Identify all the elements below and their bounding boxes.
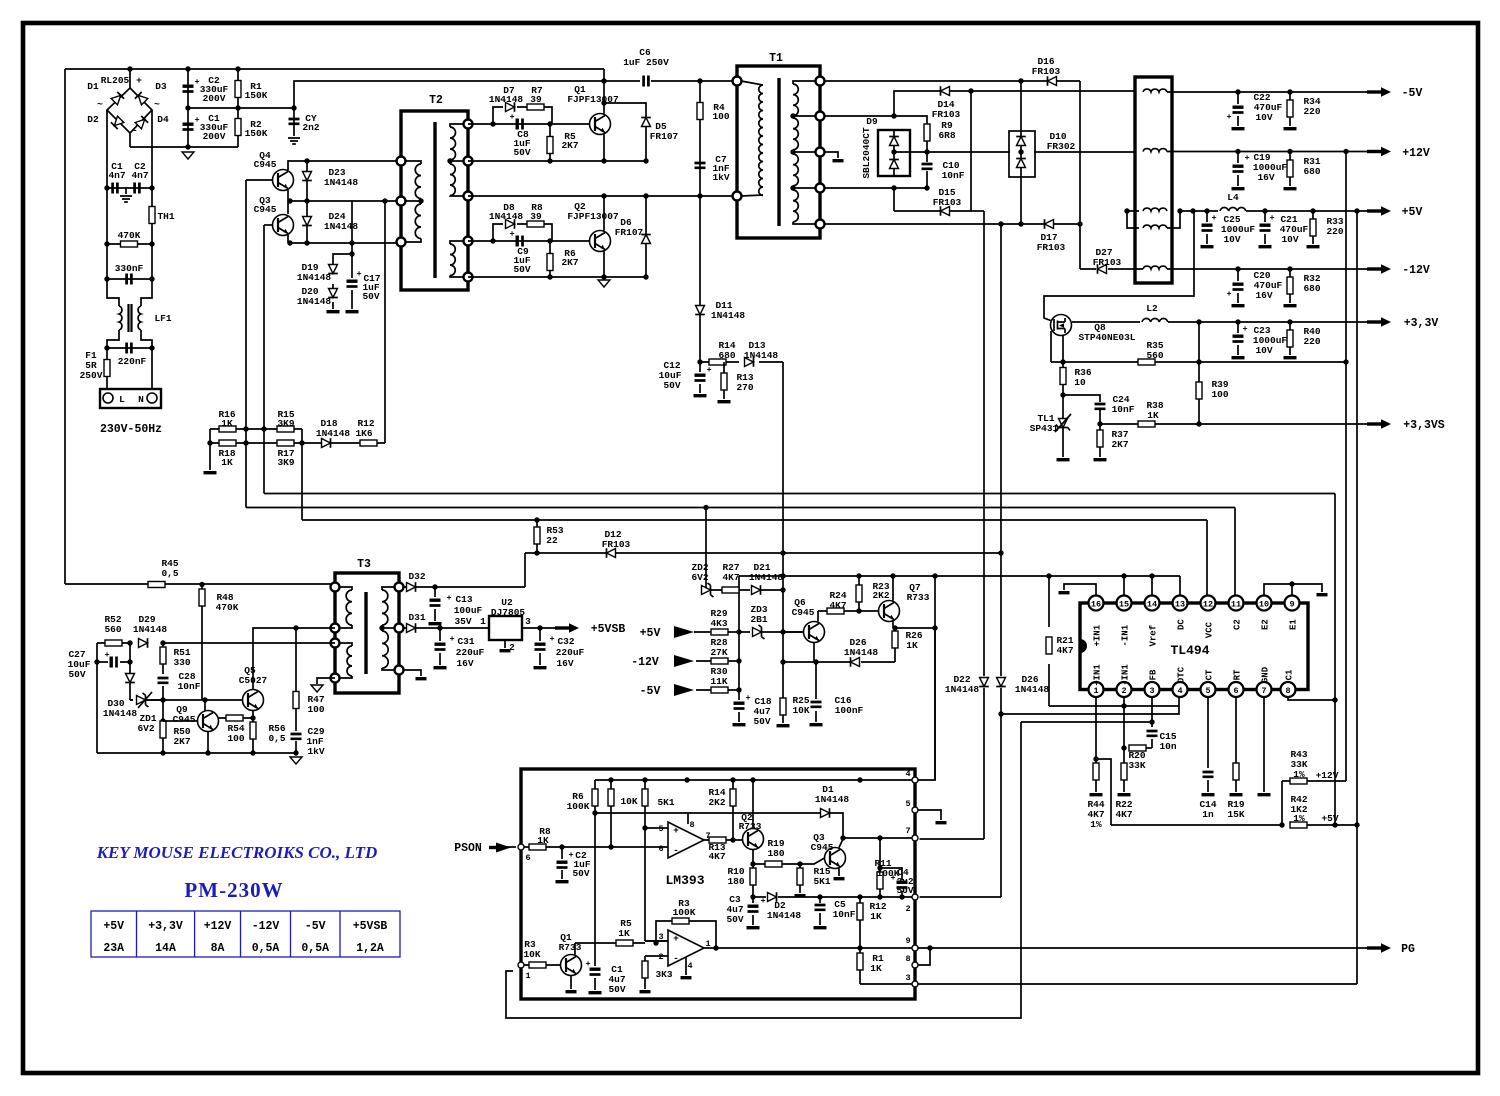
- wire pin7 row: [843, 837, 912, 839]
- capacitor C5 10nF: [815, 905, 826, 910]
- capacitor C22 470uF: [1233, 106, 1244, 109]
- winding T1 sec1: [793, 84, 798, 116]
- bus1 drop to pin8: [1288, 494, 1335, 826]
- wire pin2 row: [753, 896, 912, 898]
- capacitor C25 1000uF: [1202, 224, 1213, 227]
- wire R16 row: [210, 428, 302, 430]
- ground C21: [1259, 245, 1272, 248]
- diode D12: [607, 548, 616, 558]
- svg-text:1N4148: 1N4148: [316, 428, 351, 439]
- wire +12V feed down: [1345, 152, 1347, 782]
- winding T1 primary: [759, 85, 763, 196]
- svg-text:12: 12: [1203, 600, 1213, 610]
- diode D7: [506, 102, 515, 112]
- resistor R7: [527, 104, 544, 110]
- pin T2 right5: [464, 273, 473, 282]
- svg-text:2: 2: [1121, 686, 1126, 696]
- svg-text:6V2: 6V2: [137, 723, 154, 734]
- resistor R51: [160, 647, 166, 664]
- resistor R15 5K1: [797, 868, 803, 885]
- node -5V split: [968, 88, 973, 93]
- resistor R52: [105, 640, 122, 646]
- wire Q2 node row: [468, 240, 590, 242]
- wire FB line y706: [1049, 705, 1179, 707]
- capacitor C2 1uF: [557, 861, 568, 864]
- svg-text:680: 680: [1303, 283, 1320, 294]
- wire Q4 base: [246, 179, 273, 181]
- node D12 to D26 col: [998, 550, 1003, 555]
- svg-text:1N4148: 1N4148: [815, 794, 850, 805]
- svg-text:PG: PG: [1401, 943, 1415, 956]
- node C4 bottom: [899, 894, 904, 899]
- transformer T3 frame: [335, 573, 399, 693]
- capacitor C6 1uF 250V: [644, 76, 649, 87]
- winding T1 sec4: [793, 190, 798, 222]
- svg-text:1K: 1K: [906, 640, 918, 651]
- capacitor 330nF: [127, 274, 132, 285]
- svg-text:100nF: 100nF: [835, 705, 864, 716]
- wire pin7 column: [1263, 697, 1265, 793]
- wire R48 column: [201, 585, 203, 701]
- TL1 adjust arrow: [1055, 414, 1071, 432]
- svg-text:16V: 16V: [456, 658, 473, 669]
- wire R52 row: [97, 642, 130, 644]
- diode D10 bottom: [1016, 159, 1026, 168]
- svg-text:-12V: -12V: [631, 656, 659, 669]
- core LF1: [129, 304, 132, 332]
- svg-text:1N4148: 1N4148: [749, 572, 784, 583]
- pin TL494 10: [1257, 596, 1272, 611]
- pin LM393 1: [518, 962, 524, 968]
- pin TL494 9: [1285, 596, 1300, 611]
- capacitor C8 1uF: [516, 119, 519, 130]
- svg-text:33K: 33K: [1128, 760, 1145, 771]
- resistor R26: [892, 631, 898, 648]
- svg-text:9: 9: [905, 936, 910, 946]
- node top bus junctions: [127, 66, 132, 71]
- resistor R6 2K7: [547, 254, 553, 271]
- node ZD1 R51: [160, 697, 165, 702]
- wire x984 top: [971, 210, 984, 212]
- resistor R2: [235, 119, 241, 136]
- capacitor C10 10nF: [922, 164, 933, 169]
- svg-text:1K: 1K: [870, 963, 882, 974]
- svg-text:9: 9: [1289, 600, 1294, 610]
- svg-text:C945: C945: [173, 714, 196, 725]
- svg-text:270: 270: [736, 382, 753, 393]
- node C31 top: [437, 625, 442, 630]
- svg-text:100uF: 100uF: [454, 605, 483, 616]
- svg-text:+: +: [1244, 153, 1249, 163]
- svg-text:27K: 27K: [710, 647, 727, 658]
- svg-text:10V: 10V: [1255, 345, 1272, 356]
- svg-text:50V: 50V: [753, 716, 770, 727]
- wire pin1 line y80: [824, 80, 1080, 82]
- ground R34: [1284, 127, 1297, 130]
- ground C22: [1232, 127, 1245, 130]
- capacitor C24 10nF: [1095, 404, 1106, 409]
- svg-text:3: 3: [1149, 686, 1154, 696]
- wire pin1 row: [524, 964, 561, 966]
- svg-text:+: +: [1269, 213, 1274, 223]
- svg-text:C2: C2: [1233, 619, 1243, 630]
- svg-text:220uF: 220uF: [456, 647, 485, 658]
- node R42 right: [1354, 822, 1359, 827]
- svg-text:200V: 200V: [203, 131, 226, 142]
- wire Q2 emitter: [603, 252, 605, 278]
- wire D11 column: [699, 196, 701, 362]
- pin TL494 1: [1089, 682, 1104, 697]
- winding T2 right lower: [450, 244, 455, 276]
- pin L: [103, 393, 113, 403]
- resistor R14 680: [709, 359, 726, 365]
- svg-text:E2: E2: [1261, 619, 1271, 630]
- wire R16R18 left leg: [209, 429, 211, 470]
- wire Q2 collector: [752, 780, 754, 829]
- svg-text:1N4148: 1N4148: [297, 272, 332, 283]
- pin T2 left1: [397, 157, 406, 166]
- wire R6 leads: [549, 241, 551, 277]
- svg-text:50V: 50V: [572, 868, 589, 879]
- svg-text:1N4148: 1N4148: [297, 296, 332, 307]
- wire R3-100K loop: [656, 921, 716, 948]
- wire R34 column: [1289, 92, 1291, 126]
- wire C24 branch: [1063, 395, 1100, 424]
- wire T3 left stubs: [339, 587, 352, 678]
- svg-text:~: ~: [97, 99, 103, 110]
- svg-text:+12V: +12V: [1316, 770, 1339, 781]
- capacitor C1 4u7: [590, 968, 601, 971]
- wire F1 column: [106, 348, 108, 389]
- resistor 3K3: [642, 961, 648, 978]
- node C27 left: [94, 659, 99, 664]
- diode D27: [1098, 264, 1107, 274]
- wire Q6 emitter: [813, 643, 815, 663]
- svg-text:230V-50Hz: 230V-50Hz: [100, 423, 162, 436]
- wire D19 branch: [333, 254, 352, 309]
- svg-text:+: +: [1211, 213, 1216, 223]
- svg-text:+: +: [1226, 289, 1231, 299]
- svg-text:FR103: FR103: [1037, 242, 1066, 253]
- pin LM393 5: [912, 807, 918, 813]
- node bus2 ZD2 tap: [703, 505, 708, 510]
- svg-text:10K: 10K: [620, 796, 637, 807]
- svg-text:T3: T3: [357, 558, 371, 571]
- resistor R4: [697, 103, 703, 120]
- regulator U2 DJ7805 box: [489, 616, 522, 640]
- node base row: [293, 625, 298, 630]
- svg-text:10V: 10V: [1281, 234, 1298, 245]
- svg-text:C32: C32: [557, 636, 574, 647]
- wire op2 out row: [704, 947, 915, 949]
- svg-text:+: +: [136, 75, 142, 86]
- resistor R36: [1060, 368, 1066, 385]
- svg-text:FR103: FR103: [932, 109, 961, 120]
- ground C17: [346, 310, 359, 313]
- wire D32 row: [403, 586, 525, 588]
- svg-text:-5V: -5V: [305, 920, 326, 933]
- wire Q3 emitter row: [288, 235, 402, 243]
- pin T1 right5: [816, 220, 825, 229]
- ground pin10 tie: [1317, 593, 1328, 596]
- svg-text:DTC: DTC: [1177, 666, 1187, 683]
- zener ZD2: [702, 583, 714, 597]
- svg-text:50V: 50V: [726, 914, 743, 925]
- diode D9 top: [889, 137, 899, 146]
- resistor R45: [148, 582, 165, 588]
- wire x783 column: [782, 362, 784, 723]
- winding T1 sec2: [793, 118, 798, 150]
- wire R45 row: [65, 583, 335, 585]
- wire pin5 line y224: [824, 223, 1080, 225]
- wire Q1 bottom rail: [468, 160, 646, 162]
- svg-text:680: 680: [1303, 166, 1320, 177]
- wire Q2 collector: [603, 196, 605, 231]
- wire R47 column: [295, 628, 297, 753]
- wire ZD1 to node: [146, 699, 163, 701]
- svg-text:39: 39: [530, 211, 542, 222]
- winding T3 right lower: [382, 631, 388, 668]
- wire Vref line y576: [739, 575, 1180, 577]
- capacitor C1 4n7: [113, 183, 118, 194]
- svg-text:C945: C945: [254, 204, 277, 215]
- wire 10K column: [610, 780, 612, 847]
- rectifier D10 FR302 box: [1009, 131, 1035, 177]
- ground C1: [589, 991, 602, 994]
- svg-text:D9: D9: [866, 116, 878, 127]
- transistor Q1 R733: [561, 955, 582, 976]
- wire R35 row: [1051, 361, 1346, 363]
- transistor Q3 C945: [273, 215, 294, 236]
- node y576: [856, 573, 861, 578]
- capacitor C13 100uF: [430, 599, 441, 602]
- wire Q5 emitter: [252, 711, 254, 719]
- svg-text:220uF: 220uF: [556, 647, 585, 658]
- capacitor C2 330uF: [183, 85, 194, 88]
- pin LM393 3: [912, 981, 918, 987]
- ground C2: [556, 880, 569, 883]
- svg-text:FR103: FR103: [933, 197, 962, 208]
- wire -12V rail: [1167, 268, 1378, 270]
- resistor 470K: [121, 241, 138, 247]
- capacitor C29 1nF: [291, 734, 302, 739]
- node 4n7 row: [104, 185, 109, 190]
- wire D16 corner down: [1079, 81, 1081, 269]
- ground T1 CT: [833, 159, 844, 162]
- resistor R56: [250, 722, 256, 739]
- svg-text:0,5A: 0,5A: [301, 942, 329, 955]
- capacitor 220nF: [127, 343, 132, 354]
- capacitor C12 10uF: [695, 374, 706, 377]
- resistor R13 4K7: [709, 837, 726, 843]
- svg-text:2K2: 2K2: [708, 797, 725, 808]
- ground C20: [1232, 304, 1245, 307]
- svg-text:D31: D31: [408, 612, 425, 623]
- wire mains-to-C6 line: [294, 81, 640, 108]
- wire left HV vertical: [64, 69, 66, 584]
- wire R36 column: [1062, 362, 1064, 395]
- resistor R53: [534, 527, 540, 544]
- svg-text:180: 180: [727, 876, 744, 887]
- svg-text:1: 1: [1093, 686, 1098, 696]
- winding T3 right upper: [382, 590, 388, 625]
- wire op2 gnd stub: [685, 957, 687, 975]
- pin T1 left1: [733, 77, 742, 86]
- node C5 top: [817, 894, 822, 899]
- diode D11: [695, 306, 705, 315]
- pin TL494 5: [1201, 682, 1216, 697]
- svg-text:50V: 50V: [896, 885, 913, 896]
- node D10 center: [1018, 149, 1023, 154]
- wire Q9 base: [163, 720, 198, 722]
- svg-text:+12V: +12V: [1402, 147, 1430, 160]
- diode D17: [1045, 219, 1054, 229]
- svg-text:1K: 1K: [537, 835, 549, 846]
- capacitor C23 1000uF: [1233, 335, 1244, 338]
- wire D14 riser: [894, 91, 940, 116]
- svg-text:0,5A: 0,5A: [252, 942, 280, 955]
- node R56 bottom: [250, 750, 255, 755]
- svg-text:FR103: FR103: [1032, 66, 1061, 77]
- wire pin16 gnd: [1064, 584, 1096, 596]
- svg-text:2n2: 2n2: [302, 122, 319, 133]
- wire R23 column: [858, 576, 860, 611]
- input arrow PSON: [496, 843, 511, 853]
- wire +3.3V rail: [1072, 321, 1378, 323]
- svg-text:+5VSB: +5VSB: [353, 920, 388, 933]
- resistor R28: [711, 658, 728, 664]
- node HV minus row: [185, 144, 190, 149]
- diode D32: [407, 582, 416, 592]
- wire +5V feed down: [1356, 211, 1358, 825]
- ground C18: [733, 723, 746, 726]
- wire D32 riser x525: [524, 553, 526, 587]
- node Q1 collector: [601, 78, 606, 83]
- node R11: [877, 835, 882, 840]
- svg-text:100: 100: [307, 704, 324, 715]
- svg-text:200V: 200V: [203, 93, 226, 104]
- resistor R23: [856, 585, 862, 602]
- svg-text:+: +: [509, 112, 514, 122]
- pin T1 right3: [816, 148, 825, 157]
- wire R40 column: [1289, 322, 1291, 355]
- svg-text:8: 8: [689, 820, 694, 830]
- capacitor C27 10uF: [110, 657, 113, 668]
- svg-text:-: -: [673, 953, 679, 964]
- svg-text:D1: D1: [87, 81, 99, 92]
- node 330nF row: [104, 276, 109, 281]
- node C13 top: [432, 584, 437, 589]
- svg-text:470K: 470K: [216, 602, 239, 613]
- wire C13 column: [434, 587, 436, 621]
- resistor R40: [1287, 330, 1293, 347]
- node pin2 nodes: [1121, 703, 1126, 708]
- bracket L1 +5V left: [1127, 211, 1139, 228]
- wire D22 column: [920, 211, 985, 839]
- ground 3K3: [640, 990, 651, 993]
- node R36 bottom: [1060, 392, 1065, 397]
- svg-text:1kV: 1kV: [712, 172, 729, 183]
- svg-text:PM-230W: PM-230W: [184, 878, 283, 902]
- pin TL494 16: [1089, 596, 1104, 611]
- ground R15: [795, 894, 806, 897]
- wire R30 row: [696, 689, 739, 691]
- svg-text:D2: D2: [87, 114, 99, 125]
- ground C3: [747, 926, 760, 929]
- wire D26R column: [920, 224, 1002, 897]
- ground C31: [434, 666, 447, 669]
- svg-text:220: 220: [1303, 106, 1320, 117]
- svg-text:L2: L2: [1146, 303, 1158, 314]
- svg-text:CT: CT: [1205, 669, 1215, 680]
- wire pin8 tie: [918, 948, 930, 965]
- svg-text:23A: 23A: [103, 942, 124, 955]
- ground R33: [1307, 245, 1320, 248]
- svg-text:+: +: [673, 825, 679, 836]
- resistor R21: [1046, 637, 1052, 654]
- wire D12 row: [525, 552, 1001, 554]
- svg-text:14: 14: [1147, 600, 1157, 610]
- wire standby bottom rail: [97, 752, 296, 754]
- wire T1 primary stubs: [741, 81, 763, 196]
- svg-text:35V: 35V: [454, 616, 471, 627]
- wire R56 column: [252, 718, 254, 753]
- svg-text:50V: 50V: [608, 984, 625, 995]
- wire C20 column: [1237, 269, 1239, 303]
- svg-text:L: L: [119, 394, 125, 405]
- ground R40: [1284, 356, 1297, 359]
- svg-text:C1: C1: [1285, 669, 1295, 680]
- input stub +5V: [674, 626, 694, 638]
- svg-text:330nF: 330nF: [115, 263, 144, 274]
- capacitor C14 1n (CT): [1203, 772, 1214, 777]
- inductor L4: [1220, 208, 1246, 211]
- wire R5 leads: [549, 124, 551, 161]
- svg-text:10nF: 10nF: [178, 681, 201, 692]
- node R35 row: [1060, 359, 1065, 364]
- winding L1 -12V: [1143, 266, 1167, 269]
- resistor R30: [711, 687, 728, 693]
- zener ZD3: [753, 625, 765, 639]
- wire R29 row: [694, 631, 803, 633]
- node C7 bottom: [697, 193, 702, 198]
- ground T3 right pin3: [416, 677, 427, 680]
- pin TL494 14: [1145, 596, 1160, 611]
- pin TL494 6: [1229, 682, 1244, 697]
- wire D8R8 branch: [493, 224, 552, 241]
- arrow +3.3V: [1367, 320, 1382, 323]
- ground TL1: [1057, 458, 1070, 461]
- svg-text:2K7: 2K7: [173, 736, 190, 747]
- wire Q1 collector: [575, 943, 612, 955]
- diode D24: [302, 217, 312, 226]
- wire Q3 emitter: [838, 869, 840, 877]
- node op1 plus: [642, 825, 647, 830]
- transformer T2 frame: [401, 111, 468, 290]
- svg-text:10K: 10K: [523, 949, 540, 960]
- transistor Q1 FJPF13007: [590, 114, 611, 135]
- wire pin15 riser: [1123, 576, 1125, 596]
- resistor R15: [277, 426, 294, 432]
- svg-text:+5VSB: +5VSB: [591, 623, 626, 636]
- resistor R3 100K: [672, 918, 689, 924]
- thermistor TH1: [149, 207, 155, 224]
- transformer T1 core: [777, 78, 780, 226]
- svg-text:-IN1: -IN1: [1121, 664, 1131, 686]
- pin T2 right2: [464, 157, 473, 166]
- svg-text:LF1: LF1: [154, 313, 171, 324]
- node R56 top: [250, 715, 255, 720]
